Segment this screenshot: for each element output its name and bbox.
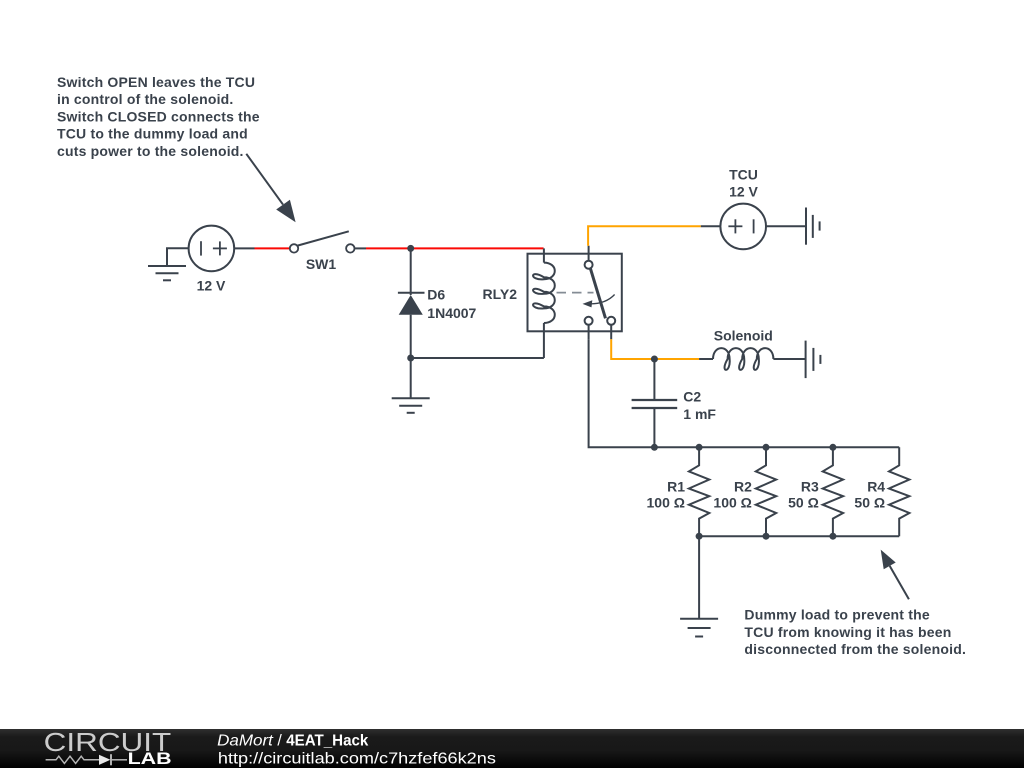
svg-text:DaMort / 4EAT_Hack: DaMort / 4EAT_Hack — [217, 732, 368, 749]
ground G1 — [148, 248, 189, 280]
diode D6 — [398, 248, 425, 358]
node dot (C2 top) — [651, 356, 658, 363]
relay common pin — [588, 246, 590, 262]
relay lever — [590, 268, 605, 319]
svg-text:Switch OPEN leaves the TCU: Switch OPEN leaves the TCU — [57, 74, 255, 90]
bottom rail — [699, 535, 899, 537]
svg-text:Switch CLOSED connects the: Switch CLOSED connects the — [57, 108, 260, 124]
node dot bottom R2 — [763, 533, 770, 540]
capacitor C2 — [632, 359, 678, 447]
wire orange (relay NO to solenoid) — [611, 339, 699, 359]
node dot rail C2 — [651, 444, 658, 451]
svg-text:TCU: TCU — [729, 166, 758, 182]
relay coil pin bottom — [543, 323, 545, 358]
wire (rail to ground) — [698, 536, 700, 619]
arrow A1 (note to switch) — [246, 154, 295, 222]
solenoid L1 — [699, 348, 806, 370]
arrow A2 (note to resistors) — [881, 550, 909, 600]
ground G2 — [806, 208, 820, 245]
resistor R4 — [889, 447, 909, 536]
svg-text:100 Ω: 100 Ω — [647, 494, 685, 510]
svg-text:12 V: 12 V — [197, 278, 226, 294]
svg-text:LAB: LAB — [128, 750, 172, 768]
ground G5 — [806, 341, 821, 379]
svg-text:100 Ω: 100 Ω — [713, 494, 751, 510]
node dot (D6 top) — [407, 245, 414, 252]
relay coil — [533, 263, 555, 323]
svg-text:cuts power to the solenoid.: cuts power to the solenoid. — [57, 143, 244, 159]
svg-text:1 mF: 1 mF — [683, 406, 716, 422]
svg-text:RLY2: RLY2 — [482, 286, 517, 302]
svg-text:TCU from knowing it has been: TCU from knowing it has been — [744, 624, 951, 640]
svg-text:50 Ω: 50 Ω — [788, 494, 819, 510]
resistor R1 — [689, 447, 709, 536]
svg-text:SW1: SW1 — [306, 256, 337, 272]
svg-text:1N4007: 1N4007 — [427, 305, 476, 321]
node dot rail R1 — [696, 444, 703, 451]
footer bar — [0, 729, 1024, 768]
svg-text:disconnected from the solenoid: disconnected from the solenoid. — [744, 641, 966, 657]
relay contact circles — [585, 261, 593, 269]
svg-text:in control of the solenoid.: in control of the solenoid. — [57, 91, 234, 107]
wire red (V1 to SW1) — [255, 247, 290, 249]
node dot bottom R1 — [696, 533, 703, 540]
voltage source V1 — [189, 226, 255, 272]
svg-text:12 V: 12 V — [729, 184, 758, 200]
svg-text:D6: D6 — [427, 287, 445, 303]
relay NC pin — [588, 325, 590, 340]
wire orange (TCU to relay common) — [588, 226, 701, 245]
svg-text:R1: R1 — [667, 478, 685, 494]
svg-text:Solenoid: Solenoid — [714, 328, 773, 344]
svg-text:C2: C2 — [683, 389, 701, 405]
annotation note 1 — [57, 74, 260, 159]
node dot bottom R3 — [829, 533, 836, 540]
voltage source TCU — [701, 204, 806, 250]
node dot rail R3 — [829, 444, 836, 451]
ground G4 — [392, 358, 430, 413]
svg-text:50 Ω: 50 Ω — [854, 494, 885, 510]
relay NO pin — [610, 325, 612, 340]
relay coil pin top — [543, 248, 545, 262]
annotation note 2 — [744, 607, 966, 657]
svg-text:R4: R4 — [867, 478, 885, 494]
resistor R3 — [823, 447, 843, 536]
node dot rail R2 — [763, 444, 770, 451]
logo symbol (resistor + diode) — [46, 754, 127, 765]
svg-text:http://circuitlab.com/c7hzfef6: http://circuitlab.com/c7hzfef66k2ns — [218, 751, 496, 768]
svg-text:R3: R3 — [801, 478, 819, 494]
resistor R2 — [756, 447, 776, 536]
wire (relay NC down and top rail) — [589, 339, 900, 447]
relay throw arrow — [590, 295, 615, 304]
relay dashed actuation line — [557, 292, 594, 294]
switch SW1 — [290, 231, 366, 252]
wire (D6 to relay coil bottom) — [411, 357, 544, 359]
svg-text:R2: R2 — [734, 478, 752, 494]
svg-text:TCU to the dummy load and: TCU to the dummy load and — [57, 126, 248, 142]
relay RLY2 — [528, 246, 622, 358]
svg-text:Dummy load to prevent the: Dummy load to prevent the — [744, 607, 929, 623]
wire red (SW1 to relay coil) — [366, 247, 544, 249]
node dot (coil bottom net) — [407, 355, 414, 362]
ground G3 — [680, 619, 718, 637]
